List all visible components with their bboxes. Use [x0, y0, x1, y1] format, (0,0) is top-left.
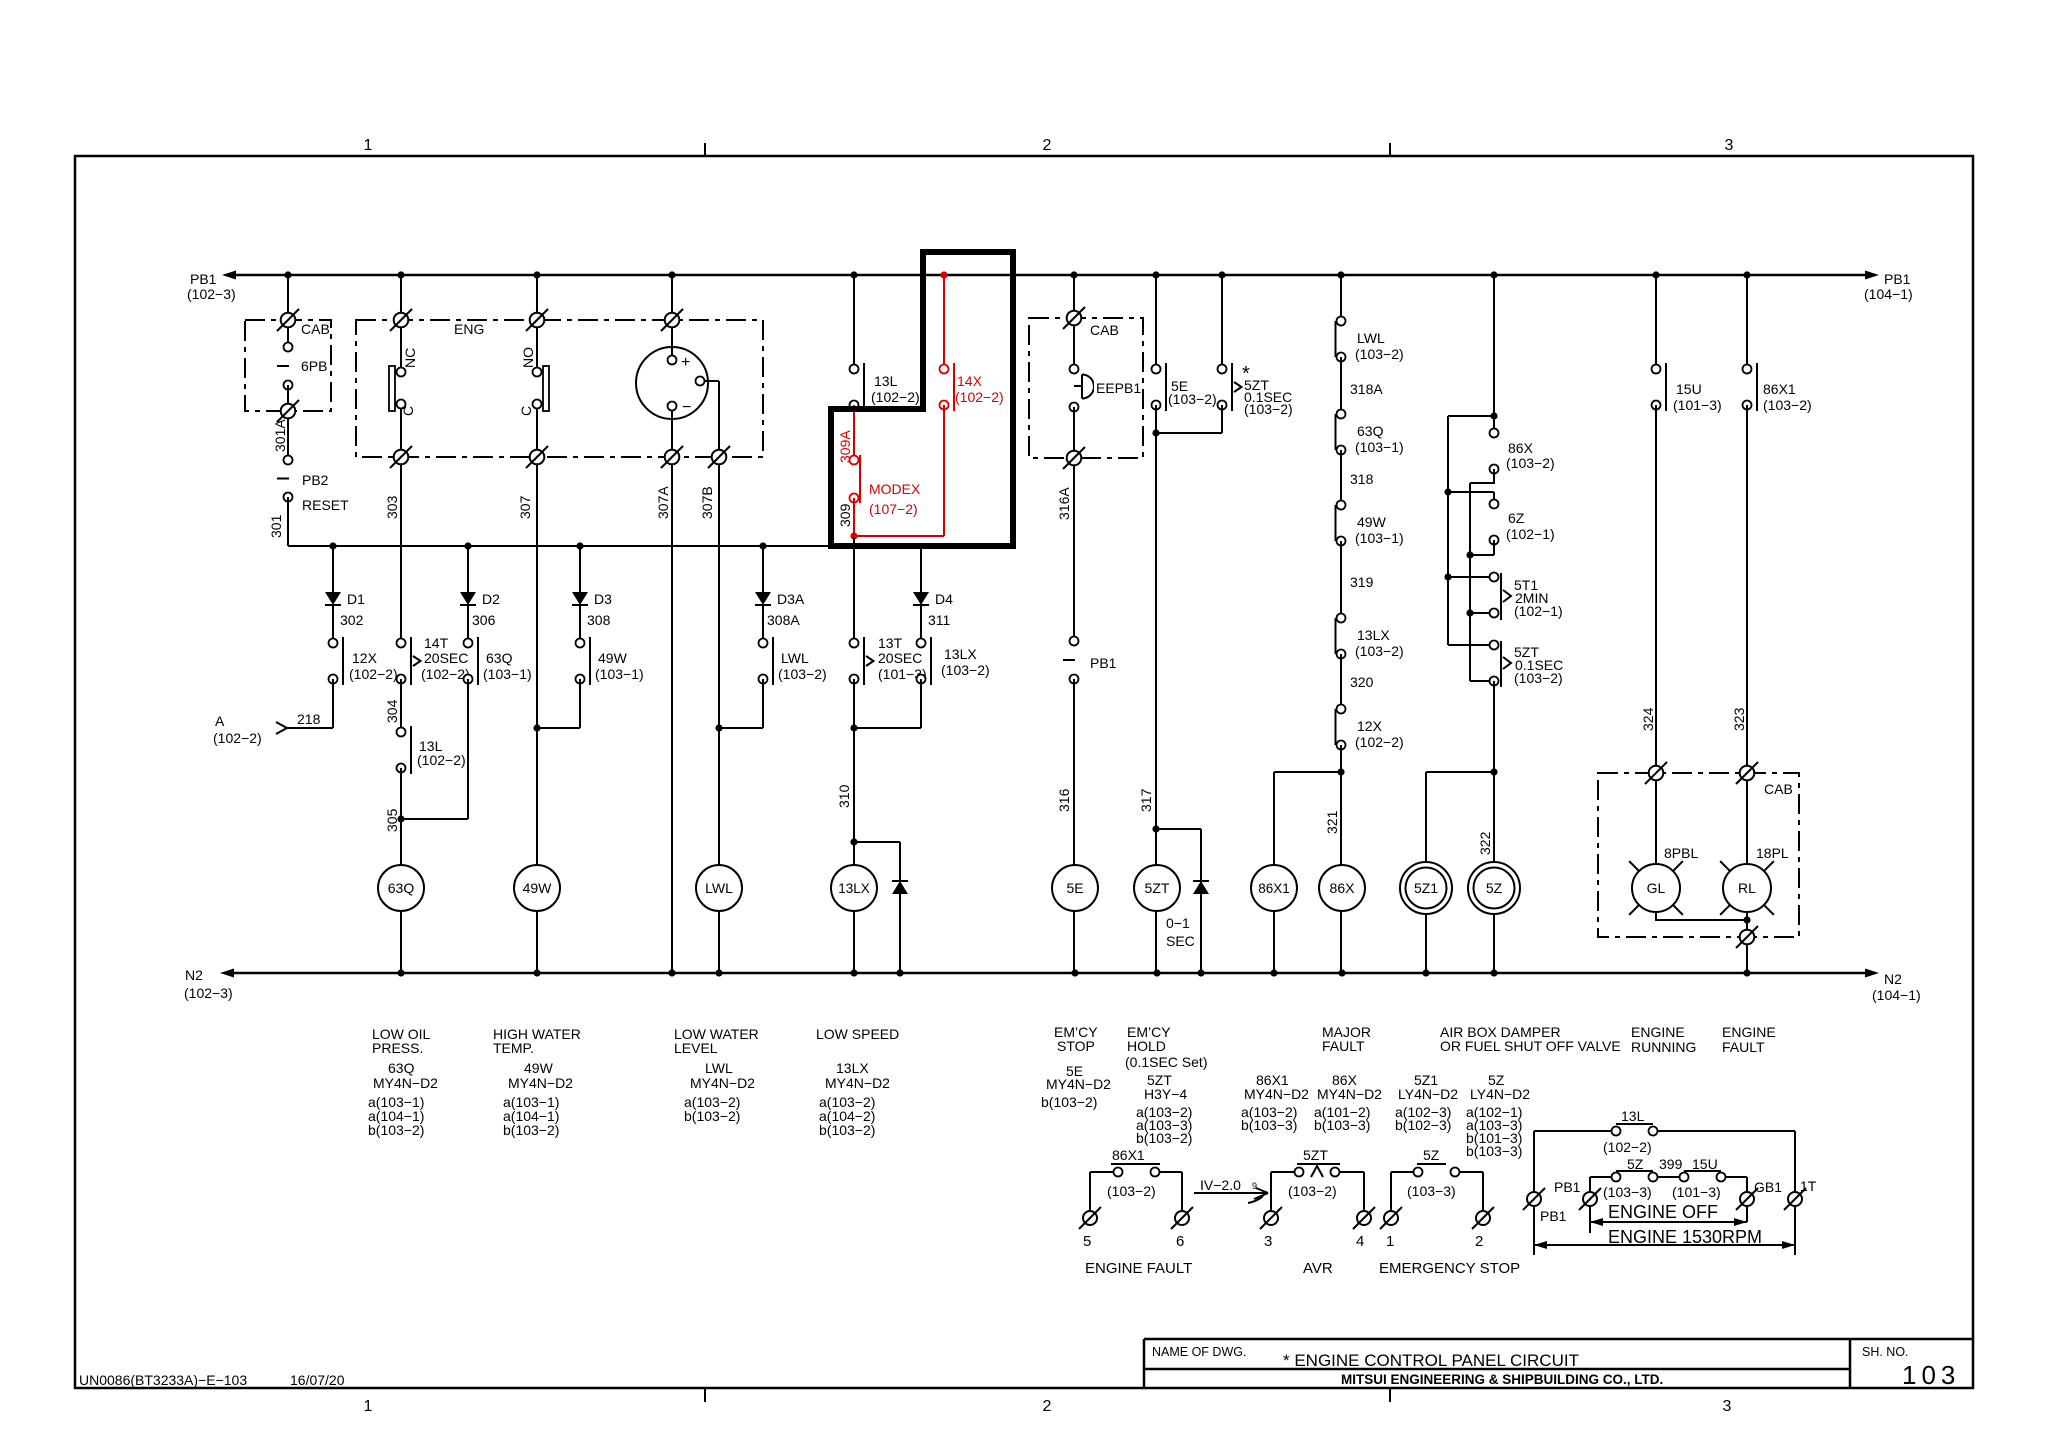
- svg-text:5: 5: [1083, 1233, 1091, 1250]
- red wire bus to 14X contact: [943, 275, 945, 369]
- svg-text:311: 311: [928, 612, 951, 628]
- svg-text:2: 2: [1043, 137, 1052, 154]
- svg-text:5Z: 5Z: [1423, 1147, 1440, 1163]
- contact 15U (101-3): [1652, 365, 1661, 374]
- junction 5T1 top on left rail: [1444, 573, 1451, 580]
- junction at (537,728): [533, 724, 540, 731]
- wire flyback diode branch 5ZT: [1200, 829, 1202, 973]
- svg-text:(103−3): (103−3): [1603, 1184, 1652, 1200]
- svg-text:(103−2): (103−2): [778, 666, 827, 682]
- flyback diode across 13LX coil: [892, 881, 908, 894]
- contact 5E (103-2): [1152, 365, 1161, 374]
- terminal 3 (slashed): [1264, 1211, 1278, 1225]
- relay coil 63Q: [378, 865, 424, 911]
- svg-text:LEVEL: LEVEL: [674, 1040, 718, 1056]
- svg-text:(103−2): (103−2): [1355, 346, 1404, 362]
- timer contact 5ZT 0.1SEC (103-2) with * mark: [1218, 365, 1227, 374]
- svg-text:(103−1): (103−1): [1355, 530, 1404, 546]
- wire terminal to + pin: [671, 327, 673, 356]
- svg-text:307: 307: [517, 495, 533, 519]
- svg-text:D4: D4: [935, 591, 953, 607]
- svg-text:1T: 1T: [1800, 1178, 1817, 1194]
- wire 318A: [1340, 357, 1342, 414]
- terminal (slashed) ENG bottom, col 307B: [712, 450, 727, 465]
- wire to terminal 6: [1181, 1172, 1183, 1211]
- svg-text:6PB: 6PB: [301, 358, 327, 374]
- diode D4: [913, 592, 929, 605]
- svg-text:5Z: 5Z: [1627, 1156, 1644, 1172]
- svg-text:D3: D3: [594, 591, 612, 607]
- svg-text:322: 322: [1477, 831, 1493, 855]
- svg-text:PB2: PB2: [302, 472, 329, 488]
- wire 6Z bottom connection to inner rail: [1493, 540, 1495, 555]
- svg-text:MY4N−D2: MY4N−D2: [508, 1075, 573, 1091]
- svg-text:0−1: 0−1: [1166, 915, 1190, 931]
- contact 12X (102-2) chain: [1337, 705, 1346, 714]
- svg-text:4: 4: [1356, 1233, 1364, 1250]
- svg-text:317: 317: [1138, 788, 1154, 812]
- svg-text:b(103−2): b(103−2): [503, 1122, 559, 1138]
- wire 317 down to 5ZT coil: [1155, 433, 1157, 973]
- svg-text:16/07/20: 16/07/20: [290, 1372, 345, 1388]
- svg-text:318: 318: [1350, 471, 1374, 487]
- svg-text:(104−1): (104−1): [1872, 987, 1921, 1003]
- wire rail to diode D3A: [762, 546, 764, 592]
- contact 13L (102-2) top: [850, 365, 859, 374]
- svg-text:LY4N−D2: LY4N−D2: [1470, 1086, 1530, 1102]
- svg-text:+: +: [681, 354, 690, 371]
- engine boundary box ENG: [356, 320, 763, 457]
- svg-text:b(102−3): b(102−3): [1395, 1117, 1451, 1133]
- svg-text:CAB: CAB: [1764, 781, 1793, 797]
- wire 308: [579, 605, 581, 643]
- svg-text:218: 218: [297, 711, 321, 727]
- svg-text:2: 2: [1475, 1233, 1483, 1250]
- junction on N2 at col RL: [1743, 969, 1750, 976]
- relay coil 5ZT: [1134, 865, 1180, 911]
- svg-text:(101−3): (101−3): [1673, 397, 1722, 413]
- svg-text:MY4N−D2: MY4N−D2: [825, 1075, 890, 1091]
- svg-text:(102−2): (102−2): [1603, 1139, 1652, 1155]
- terminal 5 (slashed): [1083, 1211, 1097, 1225]
- wire rail corner to diode D4: [920, 546, 922, 592]
- pushbutton PB2 RESET: [284, 456, 293, 465]
- wire node305 to 63Q coil: [400, 819, 402, 973]
- junction on N2 at col 5E: [1071, 969, 1078, 976]
- wire rail to 14T contact: [400, 546, 402, 643]
- wire rail to diode D1: [332, 546, 334, 592]
- pushbutton PB1: [1070, 637, 1079, 646]
- svg-text:321: 321: [1324, 810, 1340, 834]
- svg-text:C: C: [400, 406, 416, 416]
- wire 86X bottom jog to inner rail: [1470, 469, 1494, 483]
- svg-text:(0.1SEC Set): (0.1SEC Set): [1125, 1054, 1207, 1070]
- wire horizontal to 5Z1 coil branch: [1426, 771, 1494, 773]
- wire 6PB to CAB bottom terminal: [287, 385, 289, 411]
- wire PB1 bus to 13L contact (col 309): [853, 275, 855, 369]
- svg-text:LWL: LWL: [705, 880, 733, 896]
- red junction on PB1 bus at col 14X: [940, 271, 947, 278]
- svg-text:D3A: D3A: [777, 591, 805, 607]
- svg-text:5Z: 5Z: [1486, 880, 1503, 896]
- terminal (slashed) ENG bottom, col 303: [394, 450, 409, 465]
- svg-text:13T: 13T: [878, 635, 903, 651]
- relay coil LWL: [696, 865, 742, 911]
- svg-text:(103−2): (103−2): [1506, 455, 1555, 471]
- svg-text:49W: 49W: [598, 650, 628, 666]
- red wire MODEX to node 309: [853, 498, 855, 536]
- svg-text:(103−2): (103−2): [1763, 397, 1812, 413]
- svg-text:49W: 49W: [524, 1060, 554, 1076]
- wire PB1 bus to LWL chain: [1340, 275, 1342, 321]
- red contact MODEX (107-2): [850, 456, 859, 465]
- svg-text:GL: GL: [1647, 880, 1666, 896]
- wire NC to ENG bottom terminal: [400, 409, 402, 458]
- junction on PB1 bus at col 301: [284, 271, 291, 278]
- terminal (slashed) lamp CAB top, col RL: [1740, 766, 1755, 781]
- wire 5E contact to junction: [1155, 405, 1157, 433]
- wire 307 down crossing rail to node at y728: [536, 464, 538, 728]
- svg-text:86X: 86X: [1330, 880, 1356, 896]
- terminal PB1 left (slashed): [1527, 1192, 1541, 1206]
- svg-text:5ZT: 5ZT: [1303, 1147, 1328, 1163]
- contact 13LX (103-2): [917, 639, 926, 648]
- column tick marks top: [704, 143, 706, 156]
- junction on N2 at col 5Z1: [1422, 969, 1429, 976]
- terminal GB1 (slashed): [1740, 1192, 1754, 1206]
- bus PB1 right arrow to (104-1): [1865, 271, 1879, 280]
- junction node 305: [397, 815, 404, 822]
- contact 49W (103-1) chain: [1337, 501, 1346, 510]
- contact 63Q (103-1) chain: [1337, 410, 1346, 419]
- wire NO to ENG bottom terminal: [536, 409, 538, 458]
- svg-text:RL: RL: [1738, 880, 1756, 896]
- svg-text:(103−2): (103−2): [1288, 1183, 1337, 1199]
- svg-text:302: 302: [340, 612, 364, 628]
- svg-text:63Q: 63Q: [388, 1060, 415, 1076]
- svg-text:(103−2): (103−2): [1107, 1183, 1156, 1199]
- wire PB1 bus to CAB terminal (col 316A): [1073, 275, 1075, 318]
- svg-text:PB1: PB1: [190, 271, 217, 287]
- svg-text:307A: 307A: [655, 486, 671, 519]
- cabinet boundary box CAB (lamps GL RL): [1598, 773, 1799, 937]
- svg-text:(102−2): (102−2): [871, 389, 920, 405]
- svg-text:MY4N−D2: MY4N−D2: [690, 1075, 755, 1091]
- svg-text:ENGINE FAULT: ENGINE FAULT: [1085, 1260, 1192, 1277]
- wire down to LWL coil: [718, 728, 720, 973]
- svg-text:5ZT: 5ZT: [1145, 880, 1170, 896]
- svg-text:(103−1): (103−1): [595, 666, 644, 682]
- svg-text:D1: D1: [347, 591, 365, 607]
- contact 12X (102-2): [329, 639, 338, 648]
- terminal 1 (slashed): [1384, 1211, 1398, 1225]
- wire PB1 bus to ENG terminal (col 303): [400, 275, 402, 320]
- timer contact 14T 20SEC (102-2): [397, 639, 406, 648]
- wire 310 down: [853, 728, 855, 973]
- svg-text:(102−2): (102−2): [1355, 734, 1404, 750]
- svg-text:(103−3): (103−3): [1407, 1183, 1456, 1199]
- svg-text:(102−2): (102−2): [421, 666, 470, 682]
- junction rail to D2 branch: [464, 542, 471, 549]
- timer contact 13T 20SEC (101-3): [850, 639, 859, 648]
- wire second row left vertical to terminal PB1: [1589, 1177, 1591, 1192]
- svg-text:8PBL: 8PBL: [1664, 845, 1698, 861]
- junction rail to D1 branch: [329, 542, 336, 549]
- wire network output down to junction 322: [1493, 681, 1495, 772]
- diode D3A: [755, 592, 771, 605]
- junction on PB1 bus at col 15U: [1652, 271, 1659, 278]
- bus N2 right arrow to (104-1): [1865, 969, 1879, 978]
- svg-text:308: 308: [587, 612, 611, 628]
- wire terminal to 6PB: [287, 327, 289, 347]
- svg-text:86X1: 86X1: [1258, 881, 1290, 896]
- svg-text:49W: 49W: [1357, 514, 1387, 530]
- svg-text:6Z: 6Z: [1508, 510, 1525, 526]
- svg-text:3: 3: [1725, 137, 1734, 154]
- wire PB1 bus to 5E contact (col 317): [1155, 275, 1157, 369]
- svg-text:PB1: PB1: [1540, 1208, 1567, 1224]
- relay coil 5Z (double circle): [1468, 862, 1520, 914]
- svg-text:b(103−3): b(103−3): [1241, 1117, 1297, 1133]
- junction on N2 at col 5Z: [1490, 969, 1497, 976]
- wire to terminal 2: [1482, 1172, 1484, 1211]
- contact 86X1 (103-2): [1743, 365, 1752, 374]
- svg-text:ENGINE: ENGINE: [1631, 1024, 1685, 1040]
- svg-text:PB1: PB1: [1884, 271, 1911, 287]
- contact 6Z (102-1) network: [1490, 500, 1499, 509]
- terminal 1T (slashed): [1788, 1192, 1802, 1206]
- svg-text:63Q: 63Q: [388, 880, 415, 896]
- wire terminal to EEPB1: [1073, 325, 1075, 369]
- wire to terminal 3: [1270, 1172, 1272, 1211]
- junction on N2 at col 86X: [1338, 969, 1345, 976]
- terminal (slashed) lamp CAB bottom: [1740, 930, 1755, 945]
- svg-text:LWL: LWL: [1357, 330, 1385, 346]
- svg-text:86X1: 86X1: [1763, 381, 1796, 397]
- svg-text:MY4N−D2: MY4N−D2: [1046, 1076, 1111, 1092]
- terminal (slashed) CAB bottom, col 301: [281, 404, 296, 419]
- wire 49W contact down and left to col 307: [579, 679, 581, 728]
- svg-text:(103−2): (103−2): [1244, 401, 1293, 417]
- emergency pushbutton EEPB1: [1070, 365, 1079, 374]
- svg-text:D2: D2: [482, 591, 500, 607]
- wire flyback diode branch 13LX: [899, 842, 901, 973]
- svg-text:b(103−2): b(103−2): [368, 1122, 424, 1138]
- bus N2 left arrow to (102-3): [220, 969, 234, 978]
- wire 311: [920, 605, 922, 643]
- svg-text:399: 399: [1659, 1156, 1683, 1172]
- svg-text:NO: NO: [520, 347, 536, 368]
- svg-text:(102−1): (102−1): [1514, 603, 1563, 619]
- svg-text:NC: NC: [402, 348, 418, 368]
- svg-text:(103−2): (103−2): [1514, 670, 1563, 686]
- wire PB1 bus to 86X1 contact: [1746, 275, 1748, 369]
- junction at (719,728): [715, 724, 722, 731]
- svg-text:310: 310: [836, 784, 852, 808]
- junction top of parallel network: [1490, 412, 1497, 419]
- indicator lamp RL (18PL): [1723, 864, 1771, 912]
- relay coil 13LX: [831, 865, 877, 911]
- svg-text:ENGINE: ENGINE: [1722, 1024, 1776, 1040]
- wire 307B down to junction y728: [718, 464, 720, 728]
- terminal (slashed) ENG top, col 307: [530, 313, 545, 328]
- svg-text:(103−1): (103−1): [1355, 439, 1404, 455]
- wire 301A: [287, 418, 289, 460]
- wire 321 down to 86X coil: [1340, 772, 1342, 973]
- svg-text:PB1: PB1: [1554, 1179, 1581, 1195]
- svg-text:324: 324: [1640, 707, 1656, 731]
- red wire horizontal to node 309: [854, 535, 944, 537]
- junction 6Z top on left rail: [1444, 488, 1451, 495]
- svg-text:RESET: RESET: [302, 497, 349, 513]
- wire horizontal 63Q-contact to node 305: [401, 818, 468, 820]
- svg-text:15U: 15U: [1676, 381, 1702, 397]
- svg-text:A: A: [215, 713, 225, 729]
- wire 307A down to N2 bus: [671, 464, 673, 973]
- relay coil 49W: [514, 865, 560, 911]
- wire 303 to rail: [400, 464, 402, 546]
- terminal 2 (slashed): [1476, 1211, 1490, 1225]
- wire terminal to NC contact: [400, 327, 402, 368]
- svg-text:SH. NO.: SH. NO.: [1862, 1345, 1909, 1359]
- wire 5T1 top connection: [1448, 576, 1490, 578]
- svg-text:(103−2): (103−2): [941, 662, 990, 678]
- svg-text:307B: 307B: [699, 486, 715, 519]
- terminal (slashed) ENG bottom, col 307A: [665, 450, 680, 465]
- junction at (854,728): [850, 724, 857, 731]
- terminal 4 (slashed): [1357, 1211, 1371, 1225]
- wire 304: [400, 679, 402, 732]
- arrow from A (102-2): [276, 722, 287, 728]
- wire terminal to NO contact: [536, 327, 538, 368]
- terminal (slashed) CAB top, col 316A: [1067, 311, 1082, 326]
- red contact 14X (102-2): [940, 365, 949, 374]
- relay coil 5Z1 (double circle): [1400, 862, 1452, 914]
- junction on N2 at col 49W: [533, 969, 540, 976]
- svg-text:(103−2): (103−2): [1168, 391, 1217, 407]
- terminal (slashed) lamp CAB top, col GL: [1649, 766, 1664, 781]
- svg-text:AVR: AVR: [1303, 1260, 1333, 1277]
- terminal (slashed) ENG top, col 303: [394, 313, 409, 328]
- engine contact NC: [389, 366, 395, 411]
- label PB1 dimension left: [1533, 1206, 1535, 1255]
- contact LWL (103-2): [759, 639, 768, 648]
- terminal PB1 second (slashed): [1583, 1192, 1597, 1206]
- junction on N2 at flyback diode 13LX: [896, 969, 903, 976]
- svg-text:13LX: 13LX: [944, 646, 977, 662]
- column tick marks bottom: [704, 1388, 706, 1402]
- svg-text:IV−2.0: IV−2.0: [1200, 1177, 1241, 1193]
- svg-text:LY4N−D2: LY4N−D2: [1398, 1086, 1458, 1102]
- svg-text:319: 319: [1350, 574, 1374, 590]
- svg-text:FAULT: FAULT: [1322, 1038, 1365, 1054]
- svg-text:1: 1: [364, 1398, 373, 1415]
- svg-text:CAB: CAB: [301, 321, 330, 337]
- svg-text:15U: 15U: [1692, 1156, 1718, 1172]
- junction on PB1 bus at col 307A: [668, 271, 675, 278]
- engine contact NO: [543, 366, 549, 411]
- svg-text:1: 1: [1386, 1233, 1394, 1250]
- svg-text:(107−2): (107−2): [869, 501, 918, 517]
- svg-text:12X: 12X: [1357, 718, 1383, 734]
- svg-text:(102−1): (102−1): [1506, 526, 1555, 542]
- svg-text:ENGINE OFF: ENGINE OFF: [1608, 1202, 1718, 1222]
- wire to terminal 5: [1089, 1172, 1091, 1211]
- svg-text:316: 316: [1056, 788, 1072, 812]
- contact 63Q (103-1): [464, 639, 473, 648]
- wire 316 down to 5E coil: [1073, 679, 1075, 973]
- title block: [1144, 1338, 1973, 1341]
- wire 301 down to rail: [287, 497, 289, 546]
- terminal (slashed) CAB bottom, col 316A: [1067, 451, 1082, 466]
- wire 5ZT contact down and left to junction: [1221, 405, 1223, 433]
- junction on PB1 bus at col 309: [850, 271, 857, 278]
- junction on N2 at flyback diode 5ZT: [1197, 969, 1204, 976]
- wire 13LX contact down and left to col 309: [920, 679, 922, 728]
- svg-text:49W: 49W: [523, 880, 553, 896]
- svg-text:SEC: SEC: [1166, 933, 1195, 949]
- svg-text:301: 301: [268, 514, 284, 538]
- junction rail to D3A branch: [759, 542, 766, 549]
- svg-text:STOP: STOP: [1057, 1038, 1095, 1054]
- bus PB1 left arrow to (102-3): [222, 271, 236, 280]
- svg-text:FAULT: FAULT: [1722, 1039, 1765, 1055]
- svg-text:12X: 12X: [352, 650, 378, 666]
- terminal (slashed) CAB top, col 301: [281, 313, 296, 328]
- wire horizontal to 86X1 coil branch: [1274, 771, 1341, 773]
- svg-text:MY4N−D2: MY4N−D2: [1244, 1086, 1309, 1102]
- svg-text:(102−2): (102−2): [213, 730, 262, 746]
- wire 63Q contact down to node 305: [467, 679, 469, 819]
- svg-text:318A: 318A: [1350, 381, 1383, 397]
- wire 5T1 bottom connection to inner rail: [1470, 612, 1490, 614]
- wire horizontal rail from col 301 to D4 branch: [288, 545, 921, 547]
- svg-text:13LX: 13LX: [838, 881, 870, 896]
- terminal (slashed) ENG bottom, col 307: [530, 450, 545, 465]
- wire 320: [1340, 654, 1342, 709]
- wire to terminal 1: [1390, 1172, 1392, 1211]
- cabinet boundary box CAB (pushbutton 6PB): [245, 320, 331, 411]
- junction rail to D3 branch: [576, 542, 583, 549]
- red wire 309A: [853, 405, 855, 460]
- junction 5E/5ZT parallel: [1152, 429, 1159, 436]
- wire 308A: [762, 605, 764, 643]
- wire to RL lamp: [1746, 780, 1748, 937]
- svg-text:13LX: 13LX: [836, 1060, 869, 1076]
- junction flyback diode branch 5ZT at (1156,829): [1152, 825, 1159, 832]
- wire 5ZT bottom connection to inner rail: [1470, 680, 1490, 682]
- contact 86X (103-2) network: [1490, 429, 1499, 438]
- svg-text:RUNNING: RUNNING: [1631, 1039, 1696, 1055]
- svg-text:1: 1: [364, 137, 373, 154]
- contact 13L (102-2) lower: [397, 728, 406, 737]
- svg-text:9: 9: [1252, 1181, 1257, 1191]
- contact 49W (103-1): [576, 639, 585, 648]
- wire to terminal 4: [1363, 1172, 1365, 1211]
- wire 86X1 coil branch: [1273, 772, 1275, 973]
- svg-text:H3Y−4: H3Y−4: [1144, 1086, 1187, 1102]
- thick highlight outline around MODEX/14X circuit: [831, 252, 1013, 546]
- svg-text:LWL: LWL: [781, 650, 809, 666]
- wire PB1 bus to 86X parallel network: [1493, 275, 1495, 433]
- wire rail to diode D3: [579, 546, 581, 592]
- svg-text:3: 3: [1264, 1233, 1272, 1250]
- junction at (1494,772): [1490, 768, 1497, 775]
- svg-text:323: 323: [1731, 707, 1747, 731]
- svg-text:MY4N−D2: MY4N−D2: [373, 1075, 438, 1091]
- svg-text:309: 309: [837, 503, 853, 527]
- junction on PB1 bus at col 307: [533, 271, 540, 278]
